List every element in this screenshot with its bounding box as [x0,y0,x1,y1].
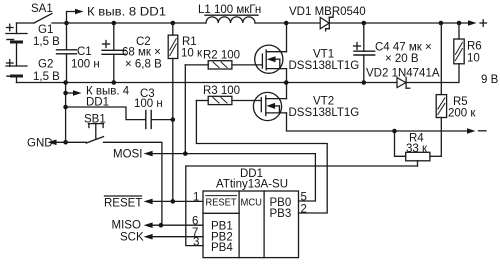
svg-text:VT2: VT2 [313,96,334,108]
label MOSI [113,149,142,161]
resistor R1 [168,23,178,201]
svg-text:R1: R1 [182,36,197,48]
svg-text:3: 3 [193,237,199,249]
label SCK [120,231,144,243]
wire to pin 8 DD1 arrow [67,9,84,23]
wire R3 to PB3 pin 2 [196,101,327,214]
svg-text:68 мк ×: 68 мк × [122,47,161,59]
R5 label [448,96,476,120]
R1 label [181,36,203,60]
output minus arrow [467,128,476,134]
capacitor C4 [354,23,375,83]
svg-text:VT1: VT1 [313,49,334,61]
pin 6 number [192,216,198,228]
pin 1 number [193,192,199,204]
wire VT1 source [286,69,288,83]
svg-text:× 6,8 В: × 6,8 В [125,59,162,71]
svg-text:33 к: 33 к [406,143,428,155]
C1 label [71,46,100,70]
label К выв. 8 DD1 [87,7,166,19]
svg-text:G2: G2 [38,59,53,71]
DD1 RESET cell label [206,197,238,209]
svg-text:200 к: 200 к [448,108,476,120]
RESET overline [105,195,142,197]
VD1 label [289,6,366,18]
C2 plus sign [103,41,110,48]
DD1 PB0 label [270,197,292,220]
wire top rail mid [255,22,320,24]
GND arrow [48,140,87,146]
svg-text:R2 100: R2 100 [203,50,240,62]
svg-text:VD1 MBR0540: VD1 MBR0540 [289,6,366,18]
wire VT2 source to minus line [287,113,468,131]
node C1 top [64,21,69,26]
resistor R4 (trimmer) [395,131,442,166]
capacitor C1 [57,23,77,83]
svg-text:PB3: PB3 [270,208,292,220]
svg-text:GND: GND [27,138,53,150]
node C3 branch [63,105,68,110]
wire GND vertical [65,83,67,143]
DD1 MCU label [241,197,263,209]
node C4 top [362,21,367,26]
output plus sign [480,20,487,27]
svg-text:10: 10 [467,53,480,65]
L1 label underline [205,14,258,16]
node C3-R1 [171,117,176,122]
C2 label [122,36,162,71]
pushbutton SB1 [86,124,103,143]
resistor R5 [436,23,446,156]
wire RESET [144,199,203,205]
svg-text:C4 47 мк ×: C4 47 мк × [375,42,432,54]
node C2 bottom [112,80,117,85]
label 9 В [481,74,499,86]
svg-text:R5: R5 [453,96,468,108]
svg-text:L1 100 мкГн: L1 100 мкГн [198,4,261,16]
node R4 left [392,129,397,134]
DD1 RESET cell overline [206,195,237,197]
IC DD1 ATtiny13A-SU box [203,191,299,258]
resistor R2 [185,61,262,69]
resistor R3 [196,96,261,104]
svg-text:1: 1 [193,192,199,204]
svg-text:К выв. 8 DD1: К выв. 8 DD1 [87,7,166,19]
svg-text:VD2 1N4741A: VD2 1N4741A [366,68,440,80]
svg-text:SB1: SB1 [84,114,106,126]
L1 label [198,4,261,16]
svg-text:MISO: MISO [112,219,141,231]
svg-text:5: 5 [301,192,307,204]
svg-text:MCU: MCU [241,197,263,209]
wire MISO [144,222,203,228]
wire C3 branch [66,107,146,120]
svg-text:100 н: 100 н [71,58,100,70]
node C2 top [112,21,117,26]
C4 plus sign [354,43,361,50]
svg-text:DSS138LT1G: DSS138LT1G [289,107,360,119]
node GND arrow junction [63,140,68,145]
diode VD1 MBR0540 [320,15,333,31]
C4 label [375,42,432,66]
G2 label [33,59,60,84]
DD1 label [216,168,288,191]
svg-text:C1: C1 [77,46,92,58]
node R6 top [457,21,462,26]
wire ground rail [17,82,398,84]
VT1 label [289,49,360,73]
G2 plus sign [7,60,14,67]
pin 2 number [301,204,307,216]
svg-text:10 к: 10 к [181,48,203,60]
svg-text:MOSI: MOSI [113,149,142,161]
wire R4 wiper to PB4 pin 3 [186,166,418,246]
wire SCK [144,234,203,240]
svg-text:1,5 В: 1,5 В [33,36,60,48]
wire VT2 drain [286,83,288,99]
svg-text:R6: R6 [467,41,482,53]
node VT1 source / VT2 drain [284,80,289,85]
resistor R6 [454,23,464,64]
G1 plus sign [7,24,14,31]
svg-text:PB4: PB4 [211,242,233,254]
R2 label [203,50,240,62]
svg-text:DSS138LT1G: DSS138LT1G [289,60,360,72]
svg-text:6: 6 [192,216,198,228]
node MOSI-R2 [183,151,188,156]
capacitor C3 [146,111,173,129]
svg-text:G1: G1 [38,24,53,36]
SB1 label [84,114,106,126]
svg-text:R3 100: R3 100 [203,85,240,97]
label К выв. 4 DD1 [86,86,130,109]
node R1 top [171,21,176,26]
wire top rail right [330,22,468,24]
wire SB1 to MISO [104,142,162,225]
svg-text:SCK: SCK [120,231,144,243]
svg-text:2: 2 [301,204,307,216]
G1 minus sign [7,39,14,41]
transistor VT1 [255,45,287,73]
wire to pin 4 DD1 arrow [66,90,82,96]
wire top rail left [52,22,206,24]
pin 3 number [193,237,199,249]
node R5 top [439,21,444,26]
svg-text:100 н: 100 н [134,98,163,110]
svg-text:9 В: 9 В [481,74,499,86]
label MISO [112,219,141,231]
svg-text:× 20 В: × 20 В [385,53,419,65]
label GND [27,138,53,150]
svg-text:ATtiny13A-SU: ATtiny13A-SU [216,179,288,191]
output plus arrow [468,20,477,26]
pin 5 number [301,192,307,204]
svg-text:RESET: RESET [104,198,142,210]
VD2 label [366,68,440,80]
node GND branch [63,80,68,85]
node RESET-R1 [171,199,176,204]
wire VD2 cathode to R6 [406,64,459,83]
capacitor C2 [102,23,126,83]
wire battery series link [16,42,18,66]
inductor L1 [206,17,255,23]
node VT1 drain / L1-VD1 [284,21,289,26]
node C4 bottom [362,80,367,85]
node pin4 branch [63,91,68,96]
SA1 label [31,3,53,15]
wire MOSI / PB0 [144,151,316,201]
VT2 label [289,96,360,120]
svg-text:1,5 В: 1,5 В [33,71,60,83]
output minus sign [479,130,487,132]
battery G1 [6,23,27,42]
wire R2 to MOSI node [184,65,186,154]
battery G2 [6,66,27,83]
R3 label [203,85,240,97]
node MISO-SB1 [159,223,164,228]
G1 label [33,24,60,48]
R4 label [406,133,428,156]
switch SA1 [17,14,53,24]
C3 label [134,88,163,110]
R6 label [467,41,482,65]
wire VT1 drain [286,23,288,52]
G2 minus sign [7,75,14,77]
diode VD2 1N4741A zener [397,77,410,88]
svg-text:SA1: SA1 [31,3,53,15]
svg-text:RESET: RESET [206,197,238,209]
DD1 PB1 PB2 PB4 labels [211,221,233,255]
transistor VT2 [253,92,286,120]
pin 7 number [192,227,198,239]
label RESET [104,198,142,210]
